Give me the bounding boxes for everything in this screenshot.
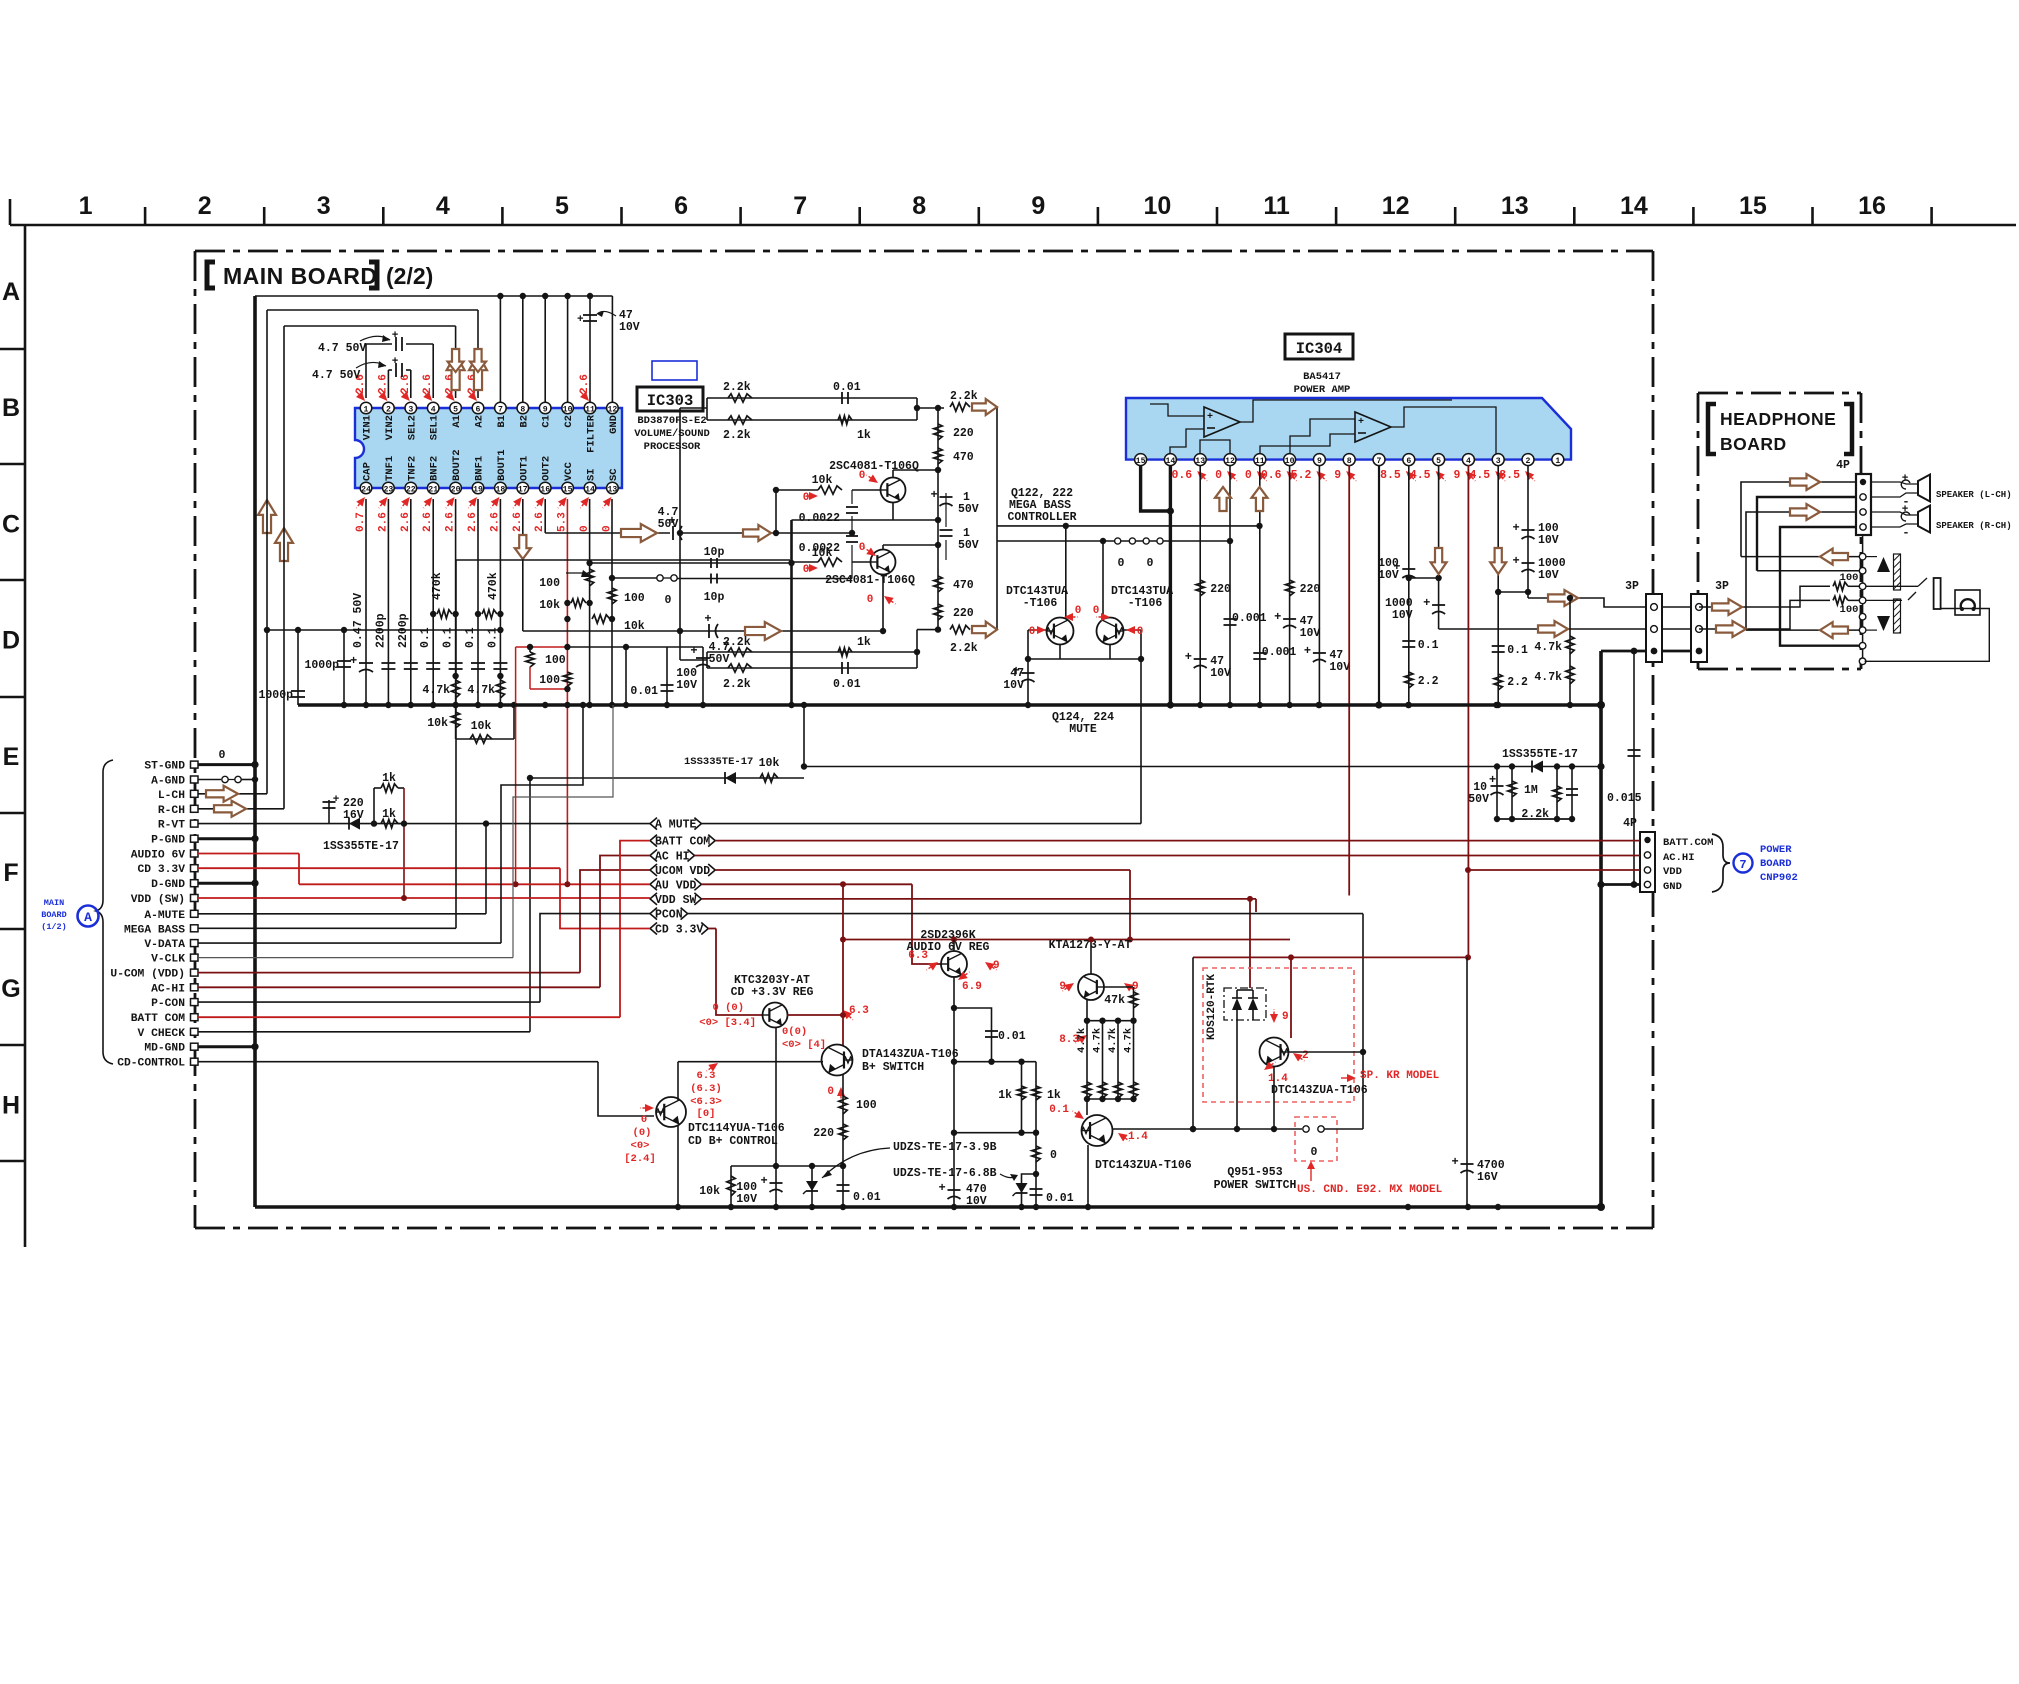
- diode network R-VT 1k 1k 220: [198, 772, 650, 898]
- svg-text:G: G: [1, 975, 20, 1003]
- svg-text:AC.HI: AC.HI: [1663, 852, 1695, 864]
- svg-text:2.2k: 2.2k: [723, 381, 751, 394]
- svg-text:4.7k: 4.7k: [1076, 1028, 1088, 1053]
- svg-text:7: 7: [793, 192, 807, 220]
- svg-text:6: 6: [476, 405, 481, 414]
- svg-text:P-GND: P-GND: [151, 835, 185, 847]
- svg-text:15: 15: [1136, 457, 1146, 466]
- svg-text:0.6: 0.6: [1171, 469, 1192, 482]
- resistor 100 pair on VCC: [516, 644, 572, 884]
- svg-text:14: 14: [1165, 457, 1175, 466]
- svg-text:10V: 10V: [1538, 534, 1559, 547]
- svg-text:50V: 50V: [658, 518, 679, 531]
- svg-text:MAIN BOARD: MAIN BOARD: [223, 263, 378, 289]
- svg-text:CD-CONTROL: CD-CONTROL: [117, 1058, 185, 1070]
- svg-text:+: +: [577, 314, 584, 326]
- components below IC304: [1141, 465, 1647, 957]
- svg-text:0: 0: [1093, 605, 1100, 617]
- svg-text:AU VDD: AU VDD: [655, 879, 697, 892]
- svg-text:CNP902: CNP902: [1760, 872, 1798, 884]
- svg-text:+: +: [704, 612, 711, 626]
- transistor DTA143ZUA B+ SWITCH: [813, 1045, 958, 1167]
- svg-text:0.01: 0.01: [1046, 1192, 1074, 1205]
- svg-text:VDD: VDD: [1663, 866, 1682, 878]
- capacitor 1000p pair: [258, 627, 503, 708]
- svg-text:TNF2: TNF2: [406, 456, 418, 481]
- svg-text:BNF1: BNF1: [474, 456, 486, 481]
- svg-text:0.0022: 0.0022: [799, 542, 841, 555]
- svg-text:+: +: [1489, 773, 1496, 787]
- svg-text:18: 18: [495, 485, 505, 494]
- svg-text:4P: 4P: [1623, 817, 1637, 830]
- svg-text:CD 3.3V: CD 3.3V: [138, 864, 186, 876]
- svg-text:<0> [4]: <0> [4]: [782, 1039, 826, 1051]
- svg-text:0 (0): 0 (0): [712, 1002, 744, 1014]
- capacitor 4700 16V: [1452, 957, 1505, 1207]
- svg-text:2.2: 2.2: [1507, 676, 1528, 689]
- capacitor 0.01 and 100 10V: [567, 644, 710, 708]
- svg-text:0: 0: [1029, 626, 1036, 638]
- svg-text:0.01: 0.01: [998, 1030, 1026, 1043]
- svg-text:2.2k: 2.2k: [950, 642, 978, 655]
- svg-text:+: +: [690, 644, 697, 658]
- label MEGA BASS CONTROLLER: [1007, 487, 1076, 524]
- svg-text:3: 3: [317, 192, 331, 220]
- svg-text:12: 12: [1225, 457, 1235, 466]
- svg-text:0.01: 0.01: [853, 1191, 881, 1204]
- svg-text:4: 4: [431, 405, 436, 414]
- svg-text:BNF2: BNF2: [429, 456, 441, 481]
- svg-text:BOARD: BOARD: [1760, 858, 1792, 870]
- diode pair KDS120-RTK: [1203, 968, 1354, 1129]
- connector POWER BOARD CNP902: [1623, 817, 1798, 893]
- svg-text:5: 5: [453, 405, 458, 414]
- svg-text:50V: 50V: [1468, 793, 1489, 806]
- svg-text:10k: 10k: [471, 720, 492, 733]
- svg-text:UDZS-TE-17-6.8B: UDZS-TE-17-6.8B: [893, 1167, 997, 1180]
- svg-text:CAP: CAP: [362, 462, 374, 481]
- ground bus wires: [255, 296, 1605, 1211]
- svg-text:0: 0: [827, 1086, 834, 1098]
- MAIN BOARD title: [207, 262, 433, 289]
- svg-text:+: +: [1513, 521, 1520, 535]
- svg-text:DTA143ZUA-T106: DTA143ZUA-T106: [862, 1048, 959, 1061]
- HEADPHONE BOARD title: [1708, 404, 1852, 454]
- svg-text:0.01: 0.01: [833, 678, 861, 691]
- svg-text:DTC143ZUA-T106: DTC143ZUA-T106: [1271, 1084, 1368, 1097]
- svg-text:BOARD: BOARD: [41, 910, 67, 920]
- svg-text:+: +: [1513, 554, 1520, 568]
- svg-text:BD3870FS-E2: BD3870FS-E2: [637, 415, 706, 427]
- svg-text:4.7k: 4.7k: [422, 684, 450, 697]
- svg-text:BATT COM: BATT COM: [131, 1013, 185, 1025]
- resistor 4.7k x4: [1076, 1018, 1138, 1116]
- svg-text:50V: 50V: [958, 503, 979, 516]
- op-amp IC304 BA5417 body: [1126, 398, 1571, 466]
- svg-text:0.6: 0.6: [1261, 469, 1282, 482]
- transistor DTC143ZUA low: [1049, 1104, 1302, 1207]
- svg-text:220: 220: [813, 1127, 834, 1140]
- svg-text:10k: 10k: [699, 1185, 720, 1198]
- svg-text:12: 12: [1382, 192, 1410, 220]
- red power wires: [198, 841, 1640, 1018]
- svg-text:4.5: 4.5: [1469, 469, 1490, 482]
- svg-text:24: 24: [361, 485, 371, 494]
- svg-text:10: 10: [1144, 192, 1172, 220]
- svg-text:R-VT: R-VT: [158, 820, 185, 832]
- svg-text:0: 0: [665, 594, 672, 607]
- svg-text:10k: 10k: [759, 757, 780, 770]
- svg-text:470k: 470k: [487, 572, 500, 600]
- svg-text:DTC114YUA-T106: DTC114YUA-T106: [688, 1122, 785, 1135]
- svg-text:SI: SI: [586, 468, 598, 481]
- svg-text:(2/2): (2/2): [386, 263, 433, 289]
- svg-text:SP. KR MODEL: SP. KR MODEL: [1360, 1070, 1440, 1082]
- svg-text:0.1: 0.1: [1049, 1104, 1069, 1116]
- svg-text:VIN1: VIN1: [362, 415, 374, 440]
- svg-text:3: 3: [1496, 457, 1501, 466]
- svg-text:50V: 50V: [958, 539, 979, 552]
- svg-text:+: +: [1185, 650, 1192, 664]
- svg-text:2.2k: 2.2k: [723, 429, 751, 442]
- svg-text:0: 0: [1215, 469, 1222, 482]
- svg-text:GND: GND: [608, 415, 620, 434]
- svg-text:470k: 470k: [431, 572, 444, 600]
- svg-text:2: 2: [1526, 457, 1531, 466]
- svg-text:BATT COM: BATT COM: [655, 836, 710, 849]
- svg-text:15: 15: [563, 485, 573, 494]
- svg-text:14: 14: [585, 485, 595, 494]
- svg-text:CD B+ CONTROL: CD B+ CONTROL: [688, 1135, 778, 1148]
- svg-text:GND: GND: [1663, 881, 1682, 893]
- svg-text:7: 7: [1377, 457, 1382, 466]
- svg-text:+: +: [1358, 417, 1364, 428]
- svg-text:0: 0: [1137, 626, 1144, 638]
- svg-text:10V: 10V: [736, 1193, 757, 1206]
- svg-text:A MUTE: A MUTE: [655, 819, 697, 832]
- svg-text:A1: A1: [451, 415, 463, 428]
- svg-text:0: 0: [1118, 557, 1125, 570]
- svg-text:0: 0: [1050, 1149, 1057, 1162]
- svg-text:+: +: [931, 488, 938, 502]
- svg-text:8: 8: [520, 405, 525, 414]
- svg-text:220: 220: [953, 607, 974, 620]
- transistor 2SC4081 pair: [776, 460, 941, 634]
- svg-text:4.7k: 4.7k: [1107, 1028, 1119, 1053]
- svg-text:220: 220: [953, 427, 974, 440]
- svg-text:0: 0: [859, 542, 866, 554]
- svg-text:2SC4081-T106Q: 2SC4081-T106Q: [829, 460, 919, 473]
- svg-text:SPEAKER (R-CH): SPEAKER (R-CH): [1936, 521, 2012, 531]
- svg-text:10p: 10p: [704, 591, 725, 604]
- svg-text:13: 13: [1195, 457, 1205, 466]
- diode 1SS335TE-17: [530, 702, 1605, 1032]
- svg-text:10V: 10V: [1538, 569, 1559, 582]
- op-amp IC303 BD3870FS-E2 body and pins: [355, 402, 622, 494]
- resistor 4.7k pair feedback: [1534, 595, 1574, 708]
- svg-text:100: 100: [539, 577, 560, 590]
- svg-text:100: 100: [545, 654, 566, 667]
- svg-text:10V: 10V: [1300, 627, 1321, 640]
- svg-text:B+ SWITCH: B+ SWITCH: [862, 1061, 924, 1074]
- svg-text:100: 100: [1840, 604, 1859, 616]
- svg-text:47k: 47k: [1104, 994, 1125, 1007]
- svg-text:ST-GND: ST-GND: [144, 761, 185, 773]
- svg-text:VOLUME/SOUND: VOLUME/SOUND: [634, 428, 710, 440]
- svg-text:6: 6: [674, 192, 688, 220]
- svg-text:3: 3: [408, 405, 413, 414]
- svg-text:6: 6: [1406, 457, 1411, 466]
- svg-text:5: 5: [555, 192, 569, 220]
- svg-text:D-GND: D-GND: [151, 879, 185, 891]
- svg-text:+: +: [1452, 1155, 1459, 1169]
- svg-text:MUTE: MUTE: [1069, 723, 1097, 736]
- svg-text:4.7k: 4.7k: [1092, 1028, 1104, 1053]
- svg-text:+: +: [761, 1174, 768, 1188]
- svg-text:-: -: [1902, 526, 1909, 540]
- svg-text:4.5: 4.5: [1410, 469, 1431, 482]
- svg-text:3P: 3P: [1715, 580, 1729, 593]
- svg-text:1: 1: [1555, 457, 1560, 466]
- svg-text:4.7 50V: 4.7 50V: [312, 369, 360, 382]
- svg-text:U-COM (VDD): U-COM (VDD): [110, 969, 185, 981]
- svg-text:0.1: 0.1: [1418, 639, 1439, 652]
- svg-text:3P: 3P: [1625, 580, 1639, 593]
- svg-text:11: 11: [585, 405, 595, 414]
- svg-text:10: 10: [563, 405, 573, 414]
- svg-text:20: 20: [451, 485, 461, 494]
- svg-text:[2.4]: [2.4]: [624, 1153, 656, 1165]
- svg-text:0: 0: [1311, 1146, 1318, 1159]
- svg-text:0.1: 0.1: [1507, 644, 1528, 657]
- svg-text:VCC: VCC: [563, 461, 575, 481]
- transistor KTA1273-Y-AT: [1049, 937, 1139, 1047]
- svg-text:2.2k: 2.2k: [723, 678, 751, 691]
- svg-text:9: 9: [1031, 192, 1045, 220]
- svg-text:9: 9: [1334, 469, 1341, 482]
- svg-text:21: 21: [428, 485, 438, 494]
- svg-text:P-CON: P-CON: [151, 998, 185, 1010]
- svg-text:1000p: 1000p: [258, 689, 293, 702]
- svg-text:6.3: 6.3: [849, 1005, 869, 1017]
- svg-text:A: A: [84, 910, 92, 925]
- svg-text:IC304: IC304: [1296, 340, 1343, 358]
- RC network MEGA BASS 2.2k 0.01 1k: [677, 381, 997, 691]
- svg-text:8.5: 8.5: [1499, 469, 1520, 482]
- zener UDZS pair: [699, 1027, 1018, 1207]
- svg-text:10k: 10k: [427, 717, 448, 730]
- IC304 red pin voltages: [1171, 468, 1537, 484]
- svg-text:MAIN: MAIN: [44, 898, 64, 908]
- svg-text:POWER SWITCH: POWER SWITCH: [1214, 1179, 1297, 1192]
- svg-text:+: +: [392, 356, 399, 368]
- svg-text:16: 16: [1858, 192, 1886, 220]
- svg-text:BOUT1: BOUT1: [496, 449, 508, 481]
- IC304 label: [1285, 334, 1353, 396]
- arrows signal flow: [258, 349, 781, 640]
- svg-text:2.2k: 2.2k: [723, 636, 751, 649]
- svg-text:1k: 1k: [1047, 1089, 1061, 1102]
- svg-text:BOARD: BOARD: [1720, 434, 1787, 454]
- svg-text:4P: 4P: [1836, 459, 1850, 472]
- svg-text:V CHECK: V CHECK: [138, 1028, 186, 1040]
- svg-text:C2: C2: [563, 415, 575, 428]
- wire IC303 top bus: [255, 293, 640, 403]
- svg-text:<6.3>: <6.3>: [690, 1096, 722, 1108]
- svg-text:CD +3.3V REG: CD +3.3V REG: [731, 986, 814, 999]
- transistor 2SD2396K AUDIO 6V REG: [843, 929, 1290, 1208]
- svg-text:100: 100: [1840, 572, 1859, 584]
- capacitor row below IC303: [350, 499, 507, 705]
- svg-text:4.7k: 4.7k: [1123, 1028, 1135, 1053]
- svg-text:H: H: [2, 1091, 20, 1119]
- svg-text:1000p: 1000p: [304, 659, 339, 672]
- svg-text:0: 0: [803, 492, 810, 504]
- svg-text:BATT.COM: BATT.COM: [1663, 837, 1713, 849]
- svg-text:(1/2): (1/2): [41, 922, 67, 932]
- svg-text:5.2: 5.2: [1291, 469, 1312, 482]
- svg-text:8: 8: [1347, 457, 1352, 466]
- svg-text:0: 0: [859, 470, 866, 482]
- svg-text:R-CH: R-CH: [158, 805, 185, 817]
- svg-text:CONTROLLER: CONTROLLER: [1007, 511, 1076, 524]
- svg-text:-T106: -T106: [1128, 597, 1163, 610]
- diode 1SS355TE-17 network: [1468, 748, 1578, 822]
- svg-text:9: 9: [1317, 457, 1322, 466]
- svg-text:A-GND: A-GND: [151, 776, 185, 788]
- svg-text:B2: B2: [518, 415, 530, 428]
- svg-text:22: 22: [406, 485, 416, 494]
- svg-text:SC: SC: [608, 468, 620, 481]
- svg-text:0.01: 0.01: [630, 685, 658, 698]
- svg-text:(6.3): (6.3): [690, 1083, 722, 1095]
- svg-text:4: 4: [1466, 457, 1471, 466]
- svg-text:1SS355TE-17: 1SS355TE-17: [323, 840, 399, 853]
- svg-text:SEL1: SEL1: [429, 415, 441, 440]
- svg-text:AUDIO 6V: AUDIO 6V: [131, 850, 185, 862]
- capacitor 4.7 50V pair at IC303 inputs: [312, 330, 433, 398]
- svg-text:1k: 1k: [382, 772, 396, 785]
- svg-text:7: 7: [1739, 858, 1746, 872]
- svg-text:MEGA BASS: MEGA BASS: [124, 924, 185, 936]
- headphone board jack and volume: [1699, 459, 2012, 665]
- svg-text:1k: 1k: [382, 808, 396, 821]
- svg-text:10V: 10V: [619, 321, 640, 334]
- transistor DTC143ZUA SP KR model: [1260, 957, 1440, 1132]
- svg-text:4.7k: 4.7k: [1534, 671, 1562, 684]
- svg-text:6.9: 6.9: [962, 981, 982, 993]
- svg-text:HEADPHONE: HEADPHONE: [1720, 409, 1836, 429]
- resistor network SI SC: [539, 499, 893, 884]
- svg-text:11: 11: [1255, 457, 1265, 466]
- svg-text:100: 100: [856, 1099, 877, 1112]
- svg-text:<0> [3.4]: <0> [3.4]: [699, 1017, 756, 1029]
- svg-text:FILTER: FILTER: [586, 414, 598, 453]
- connector 3P pair: [1601, 580, 1729, 662]
- transistor Q124 Q224 MUTE: [997, 523, 1263, 824]
- svg-text:PCON: PCON: [655, 909, 683, 922]
- resistor 10k pair below bus: [427, 702, 517, 743]
- svg-text:4.7k: 4.7k: [467, 684, 495, 697]
- svg-text:8.5: 8.5: [1380, 469, 1401, 482]
- svg-text:470: 470: [953, 579, 974, 592]
- svg-text:US. CND. E92. MX MODEL: US. CND. E92. MX MODEL: [1297, 1184, 1443, 1196]
- svg-text:1.4: 1.4: [1128, 1131, 1148, 1143]
- svg-text:0: 0: [641, 1114, 647, 1126]
- svg-text:220: 220: [1300, 583, 1321, 596]
- svg-text:1k: 1k: [857, 429, 871, 442]
- svg-text:16V: 16V: [1477, 1171, 1498, 1184]
- transistor DTC114YUA CD B+ CONTROL: [624, 1060, 823, 1207]
- svg-text:+: +: [392, 330, 399, 342]
- svg-text:0.47 50V: 0.47 50V: [352, 593, 365, 648]
- svg-text:+: +: [1274, 610, 1281, 624]
- svg-text:4: 4: [436, 192, 450, 220]
- svg-text:(0): (0): [633, 1127, 652, 1139]
- transistor KTC3203Y-AT CD +3.3V REG: [699, 884, 869, 1051]
- svg-text:50V: 50V: [709, 653, 730, 666]
- svg-text:1: 1: [364, 405, 369, 414]
- svg-text:10k: 10k: [812, 474, 833, 487]
- svg-text:POWER: POWER: [1760, 844, 1792, 856]
- svg-text:23: 23: [383, 485, 393, 494]
- svg-text:2.2k: 2.2k: [950, 390, 978, 403]
- svg-text:-T106: -T106: [1023, 597, 1058, 610]
- svg-text:10V: 10V: [1392, 609, 1413, 622]
- svg-text:POWER AMP: POWER AMP: [1294, 384, 1351, 396]
- svg-text:+: +: [333, 794, 340, 806]
- svg-text:19: 19: [473, 485, 483, 494]
- svg-text:5: 5: [1436, 457, 1441, 466]
- svg-text:12: 12: [607, 405, 617, 414]
- svg-text:BA5417: BA5417: [1303, 371, 1341, 383]
- svg-text:2: 2: [198, 192, 212, 220]
- svg-text:10V: 10V: [1210, 667, 1231, 680]
- arrow input A1 A2: [447, 354, 487, 390]
- svg-text:0.0022: 0.0022: [799, 512, 841, 525]
- MAIN BOARD boundary: [195, 251, 1653, 1228]
- svg-text:10V: 10V: [1003, 679, 1024, 692]
- svg-text:0.01: 0.01: [833, 381, 861, 394]
- resistor 1k 1k zener cluster: [951, 1005, 1074, 1207]
- svg-text:UCOM VDD: UCOM VDD: [655, 865, 710, 878]
- svg-text:16: 16: [540, 485, 550, 494]
- svg-text:1M: 1M: [1524, 784, 1538, 797]
- svg-text:+: +: [350, 654, 357, 668]
- svg-text:0: 0: [1245, 469, 1252, 482]
- svg-text:0: 0: [803, 564, 810, 576]
- svg-text:AC-HI: AC-HI: [151, 983, 185, 995]
- svg-text:AC HI: AC HI: [655, 851, 690, 864]
- svg-text:VDD SW: VDD SW: [655, 894, 697, 907]
- svg-text:2.2: 2.2: [1418, 675, 1439, 688]
- svg-text:1SS355TE-17: 1SS355TE-17: [1502, 748, 1578, 761]
- svg-text:220: 220: [1210, 583, 1231, 596]
- svg-text:1k: 1k: [857, 636, 871, 649]
- svg-text:10V: 10V: [676, 679, 697, 692]
- resistor chain 220 470 with 1 50V caps: [931, 405, 979, 633]
- red wire 9V rail: [1190, 954, 1471, 1132]
- svg-text:2: 2: [386, 405, 391, 414]
- IC303 red pin voltages: [353, 374, 615, 532]
- svg-text:9: 9: [543, 405, 548, 414]
- svg-text:<0>: <0>: [631, 1140, 650, 1152]
- svg-text:+: +: [1304, 644, 1311, 658]
- svg-text:1SS335TE-17: 1SS335TE-17: [684, 756, 753, 768]
- svg-text:17: 17: [518, 485, 528, 494]
- switch Q951-953 POWER SWITCH: [1214, 1117, 1443, 1196]
- svg-text:PROCESSOR: PROCESSOR: [644, 441, 701, 453]
